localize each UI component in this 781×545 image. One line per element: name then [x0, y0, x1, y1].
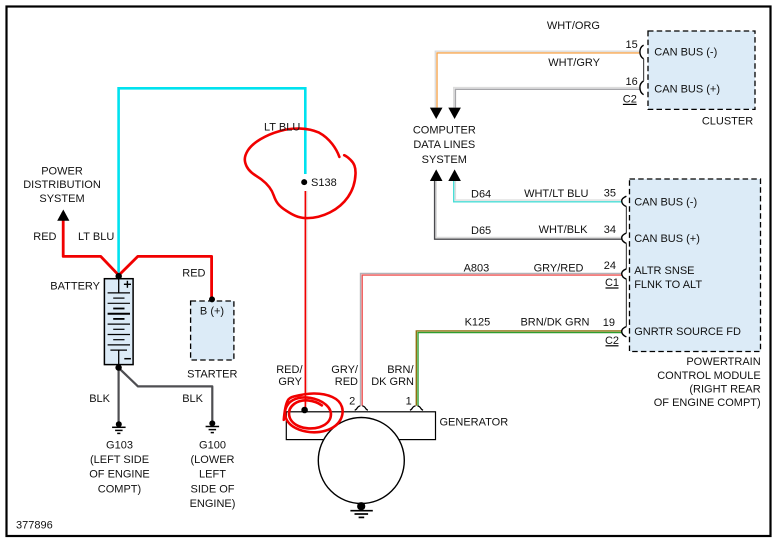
svg-text:K125: K125: [465, 316, 491, 328]
connector C2 body line cluster: [643, 59, 645, 81]
svg-text:2: 2: [349, 396, 355, 408]
svg-text:ALTR SNSE: ALTR SNSE: [634, 265, 694, 277]
svg-text:16: 16: [626, 76, 638, 88]
svg-text:19: 19: [603, 317, 615, 329]
pin 1 connector arc generator: [410, 406, 423, 410]
node generator pin splice (RED/GRY): [301, 407, 308, 414]
svg-text:LT BLU: LT BLU: [264, 122, 300, 134]
svg-text:DATA LINES: DATA LINES: [413, 139, 475, 151]
svg-text:FLNK TO ALT: FLNK TO ALT: [634, 279, 702, 291]
svg-text:S138: S138: [311, 177, 337, 189]
ground generator case: [350, 502, 372, 517]
svg-text:BLK: BLK: [182, 393, 203, 405]
wire WHT/BLK D65 to PCM pin34: [436, 181, 622, 238]
svg-text:POWERTRAIN: POWERTRAIN: [686, 356, 760, 368]
pin 34 connector arc PCM: [622, 233, 627, 243]
cluster box: [648, 31, 755, 109]
pin 35 connector arc PCM: [622, 196, 627, 206]
wire WHT/GRY cluster pin16: [454, 88, 640, 108]
generator body circle: [318, 418, 404, 504]
svg-text:GRY/: GRY/: [331, 364, 359, 376]
svg-text:WHT/ORG: WHT/ORG: [547, 20, 600, 32]
svg-text:WHT/LT BLU: WHT/LT BLU: [524, 188, 588, 200]
svg-text:WHT/BLK: WHT/BLK: [539, 224, 589, 236]
wire RED S138 to generator: [306, 191, 308, 404]
arrow down to computer data lines (WHT/GRY): [448, 108, 461, 119]
svg-text:WHT/GRY: WHT/GRY: [548, 57, 600, 69]
svg-text:LEFT: LEFT: [199, 469, 226, 481]
wire GRY/RED generator pin2 to PCM pin24 A803: [361, 273, 622, 405]
wire LT BLU battery to S138: [119, 88, 306, 275]
annotation red scribble around generator pin: [284, 393, 343, 432]
pin 24 connector arc PCM: [622, 269, 627, 279]
svg-text:GNRTR SOURCE FD: GNRTR SOURCE FD: [634, 326, 741, 338]
wire BRN/DK GRN generator pin1 to PCM pin19 K125: [416, 331, 622, 406]
svg-text:CAN BUS (-): CAN BUS (-): [634, 197, 697, 209]
svg-text:(LEFT SIDE: (LEFT SIDE: [90, 454, 149, 466]
wire WHT/LT BLU D64 to PCM pin35: [455, 181, 622, 200]
wire BLK battery to G100: [119, 368, 213, 421]
ground G103: [112, 421, 126, 433]
svg-text:SYSTEM: SYSTEM: [39, 193, 84, 205]
wire WHT/ORG cluster pin15: [435, 51, 640, 107]
PCM box: [630, 179, 761, 352]
svg-text:RED: RED: [335, 376, 358, 388]
node battery negative junction: [115, 364, 121, 370]
svg-text:(LOWER: (LOWER: [191, 454, 235, 466]
svg-text:DISTRIBUTION: DISTRIBUTION: [23, 179, 101, 191]
svg-text:STARTER: STARTER: [187, 369, 237, 381]
node battery positive junction: [116, 273, 122, 279]
svg-text:(RIGHT REAR: (RIGHT REAR: [689, 383, 760, 395]
svg-text:ENGINE): ENGINE): [190, 498, 236, 510]
arrow down to computer data lines (WHT/ORG): [430, 108, 443, 119]
svg-text:SYSTEM: SYSTEM: [422, 154, 467, 166]
svg-text:BRN/DK GRN: BRN/DK GRN: [520, 316, 589, 328]
svg-text:SIDE OF: SIDE OF: [190, 483, 234, 495]
arrow up from computer data lines (D64): [448, 169, 461, 181]
wire BLK battery to G103: [117, 368, 119, 422]
connector C2 body line PCM: [625, 279, 627, 326]
svg-text:CAN BUS (-): CAN BUS (-): [654, 47, 717, 59]
svg-text:COMPT): COMPT): [98, 483, 141, 495]
svg-text:OF ENGINE COMPT): OF ENGINE COMPT): [654, 397, 761, 409]
generator box: [286, 412, 435, 440]
svg-text:GENERATOR: GENERATOR: [440, 416, 509, 428]
svg-text:D64: D64: [471, 188, 491, 200]
svg-text:C2: C2: [623, 94, 637, 106]
svg-text:24: 24: [604, 260, 616, 272]
svg-text:POWER: POWER: [41, 165, 83, 177]
svg-text:CLUSTER: CLUSTER: [702, 115, 753, 127]
connector C1 body line PCM: [625, 207, 627, 233]
pin 16 connector arc cluster: [640, 81, 644, 95]
wire RED power distribution to battery to starter: [63, 212, 211, 299]
svg-text:RED/: RED/: [276, 364, 303, 376]
svg-text:CAN BUS (+): CAN BUS (+): [654, 83, 720, 95]
svg-text:RED: RED: [182, 268, 205, 280]
svg-text:GRY/RED: GRY/RED: [534, 262, 584, 274]
svg-text:DK GRN: DK GRN: [371, 376, 414, 388]
svg-text:GRY: GRY: [278, 376, 302, 388]
svg-text:OF ENGINE: OF ENGINE: [89, 469, 150, 481]
svg-text:34: 34: [604, 224, 616, 236]
arrow to power distribution system: [57, 210, 69, 221]
svg-text:CONTROL MODULE: CONTROL MODULE: [657, 370, 761, 382]
pin 15 connector arc cluster: [640, 45, 644, 59]
svg-text:BRN/: BRN/: [387, 364, 414, 376]
svg-text:BATTERY: BATTERY: [50, 281, 100, 293]
ground G100: [206, 420, 220, 432]
starter B(+) box: [191, 301, 234, 360]
svg-text:15: 15: [626, 39, 638, 51]
svg-text:D65: D65: [471, 225, 491, 237]
svg-text:COMPUTER: COMPUTER: [413, 125, 476, 137]
svg-text:377896: 377896: [16, 519, 53, 531]
arrow up from computer data lines (D65): [430, 169, 443, 181]
svg-text:RED: RED: [33, 231, 56, 243]
node S138: [301, 179, 307, 185]
annotation red scribble around S138: [245, 128, 356, 218]
pin 2 connector arc generator: [355, 406, 368, 410]
svg-text:35: 35: [604, 187, 616, 199]
svg-text:G100: G100: [199, 440, 226, 452]
svg-text:LT BLU: LT BLU: [78, 231, 114, 243]
svg-text:1: 1: [406, 396, 412, 408]
svg-text:CAN BUS (+): CAN BUS (+): [634, 233, 700, 245]
svg-text:B (+): B (+): [200, 306, 224, 318]
svg-text:A803: A803: [464, 262, 490, 274]
pin 19 connector arc PCM: [622, 327, 627, 337]
svg-text:G103: G103: [106, 440, 133, 452]
node starter B(+) junction: [209, 296, 215, 302]
battery: [104, 279, 133, 365]
svg-text:BLK: BLK: [89, 393, 110, 405]
